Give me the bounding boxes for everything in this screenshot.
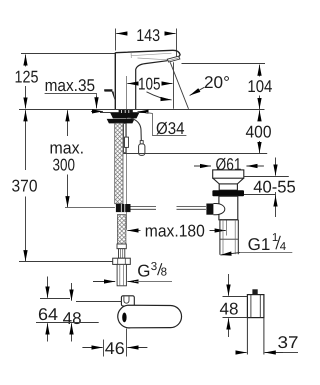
dimension 104 xyxy=(259,65,261,109)
dimension 370 xyxy=(25,110,27,170)
svg-text:48: 48 xyxy=(63,309,82,328)
svg-text:20°: 20° xyxy=(204,73,230,92)
dimension 125 xyxy=(25,55,27,109)
plan view: sensor tab xyxy=(121,296,134,306)
svg-text:max.180: max.180 xyxy=(145,221,205,240)
mounting nut (dark) xyxy=(107,119,135,124)
faucet centerline xyxy=(126,76,128,230)
hose end neck xyxy=(119,249,125,259)
svg-text:Ø34: Ø34 xyxy=(156,119,185,138)
svg-text:3: 3 xyxy=(151,261,157,273)
braided supply hose upper section xyxy=(115,123,123,204)
dimension 37 xyxy=(237,352,246,354)
dimension 143 arrows xyxy=(116,33,175,35)
Ø34 leader and label xyxy=(146,113,186,136)
control box shaft below xyxy=(246,318,248,355)
side port nut (dark) xyxy=(206,204,213,215)
dimension 143 top: extension lines xyxy=(116,29,177,58)
countertop deck top line xyxy=(19,109,265,111)
threaded shank through deck xyxy=(119,110,133,113)
svg-text:64: 64 xyxy=(38,305,58,324)
dimension 46 extension lines xyxy=(103,340,105,357)
svg-text:300: 300 xyxy=(53,156,76,175)
svg-text:143: 143 xyxy=(136,26,160,45)
small block on rod xyxy=(125,137,129,147)
drain funnel taper xyxy=(213,178,244,184)
dimension 40-55 extension lines xyxy=(244,176,289,178)
drain rubber seal (black) xyxy=(212,190,244,196)
faucet spout upper lip xyxy=(138,58,168,60)
G3/8 label xyxy=(134,281,172,283)
dimension 64 (left) xyxy=(40,298,70,300)
dimension G3/8 arrows xyxy=(93,281,136,283)
dimension 400 xyxy=(259,110,261,153)
aerator xyxy=(167,56,180,62)
plan view: faucet pill outline xyxy=(118,305,182,328)
faucet head inner bevel line xyxy=(131,53,171,56)
svg-text:125: 125 xyxy=(15,68,39,87)
dimension 105 xyxy=(127,83,172,85)
dimension 48 (right) xyxy=(223,296,248,298)
faucet head back seam xyxy=(130,52,132,58)
20 degree stream line xyxy=(170,62,188,109)
reference line 400 lower level xyxy=(123,153,267,155)
dimension 46 arrows xyxy=(82,347,102,349)
dimension max.300 xyxy=(67,110,69,136)
svg-text:G1: G1 xyxy=(248,235,271,254)
reference line hose end level (370 bottom) xyxy=(19,261,113,263)
G1 1/4 leader with arrow xyxy=(240,252,292,254)
dimension 48 (left) xyxy=(76,301,121,303)
svg-text:max.35: max.35 xyxy=(45,76,96,95)
temperature lever xyxy=(104,89,112,91)
side port dome xyxy=(213,204,224,215)
svg-text:37: 37 xyxy=(278,333,299,352)
control box (side view) xyxy=(247,295,264,318)
hose end ferrule xyxy=(117,244,126,249)
drain centerline xyxy=(226,220,228,236)
countertop deck bottom line xyxy=(100,112,145,114)
dimension Ø61 arrows xyxy=(194,165,264,167)
svg-text:104: 104 xyxy=(247,77,272,96)
plan view: sensor eye slot xyxy=(122,313,126,323)
svg-text:400: 400 xyxy=(246,123,272,142)
spindle rod beside hose xyxy=(124,124,126,153)
drain neck xyxy=(219,184,237,190)
mounting washer (dark) xyxy=(110,113,139,118)
shared bottom extension line 64/48 xyxy=(36,322,99,324)
braided supply hose lower section xyxy=(117,215,126,244)
drain flange xyxy=(213,170,244,178)
check valve fitting on hose xyxy=(116,204,131,212)
drain valve body xyxy=(219,196,238,220)
svg-text:1: 1 xyxy=(272,232,278,244)
level line at check valve xyxy=(65,207,115,209)
extension line spout tip level (104) xyxy=(182,63,266,65)
svg-text:4: 4 xyxy=(280,241,287,253)
drain tailpipe xyxy=(220,220,238,255)
faucet left edge xyxy=(114,53,116,110)
svg-text:G: G xyxy=(137,261,150,280)
dimension 40-55 arrows xyxy=(275,158,277,176)
svg-text:40-55: 40-55 xyxy=(253,177,295,196)
svg-text:105: 105 xyxy=(138,74,161,93)
control box nub xyxy=(252,289,257,294)
cable plug xyxy=(140,141,143,144)
Ø34 arrows at shank xyxy=(91,110,148,112)
linkage rod to drain (two segments with break) xyxy=(131,207,206,210)
svg-text:370: 370 xyxy=(12,177,38,196)
faucet spout underside and column right edge xyxy=(136,61,168,109)
faucet body: head top outline xyxy=(115,50,180,56)
electrical cable xyxy=(128,118,142,142)
20 degree leader xyxy=(190,87,205,95)
dimension max.180 xyxy=(127,230,140,232)
svg-text:8: 8 xyxy=(161,267,167,279)
water stream vertical reference xyxy=(173,62,175,109)
20 degree angle arc with arrow xyxy=(147,92,172,100)
svg-text:48: 48 xyxy=(220,300,239,319)
G3/8 threaded pipe xyxy=(117,264,126,285)
G3/8 nut xyxy=(113,258,131,264)
extension line faucet top level (125) xyxy=(21,53,115,55)
svg-text:46: 46 xyxy=(105,339,125,358)
